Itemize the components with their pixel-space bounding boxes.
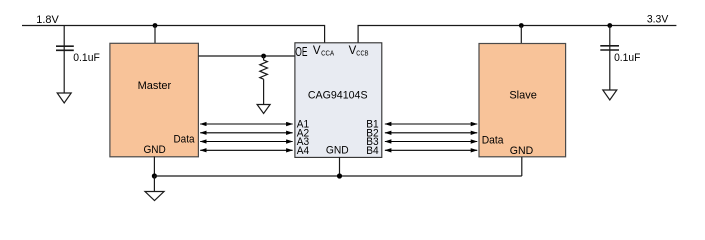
svg-text:CAG94104S: CAG94104S [308,90,368,102]
wire left cap to rail [63,26,65,47]
svg-text:OE: OE [295,45,307,59]
wire Master to OE [198,55,295,57]
bus arrow A1 [200,123,292,125]
bus arrow A2 [200,132,292,134]
junction dot (rail / Slave) [519,23,524,28]
svg-text:V: V [313,45,321,57]
capacitor C2 0.1uF [600,46,619,50]
bus arrow B1 [385,123,477,125]
svg-text:CCB: CCB [356,48,368,57]
wire Slave top to rail [520,26,522,44]
ground (right cap) [603,90,617,100]
bus arrow B3 [385,141,477,143]
resistor (OE pulldown) [260,56,268,79]
wire left cap to ground [63,46,65,93]
wire 3.3V rail [358,26,676,43]
svg-text:1.8V: 1.8V [36,14,59,26]
wire Slave GND drop [521,157,523,176]
wire right cap to ground [609,46,611,90]
svg-text:Data: Data [482,134,505,146]
ground (left cap) [57,93,71,103]
svg-text:Slave: Slave [509,89,537,101]
bus arrow A4 [200,149,292,151]
svg-text:B4: B4 [366,145,378,157]
junction dot (GND bus / Master) [152,173,157,178]
junction dot (rail / Master) [153,23,158,28]
svg-text:GND: GND [510,145,533,157]
svg-text:GND: GND [326,144,349,156]
ground (bottom) [145,192,164,201]
svg-text:3.3V: 3.3V [647,14,669,26]
junction dot (rail / right cap) [607,23,612,28]
wire IC GND drop [339,157,341,176]
svg-text:GND: GND [144,144,166,156]
ground (resistor) [257,105,270,114]
svg-text:0.1uF: 0.1uF [614,52,641,64]
wire right cap to rail [609,26,611,46]
svg-text:0.1uF: 0.1uF [73,52,100,64]
svg-text:Data: Data [174,134,196,146]
svg-text:Master: Master [138,80,172,92]
wire resistor to ground [263,79,265,104]
junction dot (GND bus / IC) [337,173,342,178]
junction dot (OE wire / resistor) [261,54,266,59]
bus arrow B2 [385,132,477,134]
wire Master GND drop [153,157,155,177]
block Slave [479,44,566,157]
svg-text:CCA: CCA [321,48,334,57]
IC U1 CAG94104S [295,43,382,158]
wire to bottom ground [153,176,155,192]
bus arrow A3 [200,141,292,143]
block Master [110,43,198,157]
wire GND bus [154,175,521,177]
bus arrow B4 [385,149,477,151]
capacitor C1 0.1uF [56,46,74,50]
svg-text:A4: A4 [297,145,309,157]
wire Master top to rail [154,26,156,44]
wire 1.8V rail [22,26,325,43]
